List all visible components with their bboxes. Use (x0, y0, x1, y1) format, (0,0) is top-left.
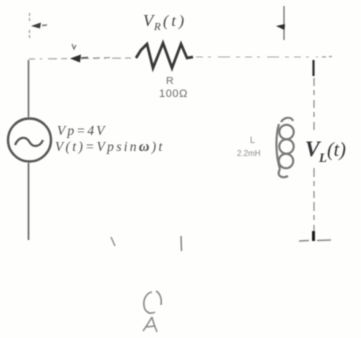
svg-text:V(t)=Vpsinω)t: V(t)=Vpsinω)t (55, 139, 165, 155)
wire top horizontal (right segment, dashed faint) (196, 56, 318, 58)
wire left vertical lower (28, 163, 30, 240)
label VR(t) (143, 11, 187, 33)
svg-text:100Ω: 100Ω (159, 88, 188, 100)
bottom-right terminal (down arrow + bar) (299, 231, 331, 241)
svg-text:R: R (153, 21, 161, 33)
wire left vertical upper (28, 60, 30, 117)
bottom node tick 1 (111, 237, 115, 246)
bottom node tick 2 (180, 236, 183, 251)
AC source V1 (8, 119, 51, 162)
svg-text:Vp=4V: Vp=4V (57, 123, 107, 138)
svg-text:L: L (250, 135, 255, 145)
top-right corner junction (314, 57, 333, 77)
inductor L coil (276, 118, 293, 177)
node marker right end of VR measurement (bar + blob) (276, 6, 285, 40)
node A handwritten letter (143, 317, 157, 332)
current arrow on top wire (70, 44, 110, 63)
svg-text:R: R (166, 75, 174, 87)
wire top horizontal (left segment, dashed faint) (29, 58, 133, 59)
node A handwritten circle (144, 291, 161, 313)
resistor R (136, 43, 193, 68)
wire right vertical (upper dashed segment) (313, 78, 315, 131)
svg-text:(t): (t) (163, 13, 187, 30)
svg-text:L: L (318, 150, 327, 165)
label VL(t) (305, 136, 346, 165)
wire right vertical (lower dashed segment) (313, 168, 315, 232)
svg-text:(t): (t) (327, 139, 346, 161)
svg-text:2.2mH: 2.2mH (237, 149, 261, 158)
node marker left end of VR measurement (tick + left arrow) (30, 13, 48, 40)
